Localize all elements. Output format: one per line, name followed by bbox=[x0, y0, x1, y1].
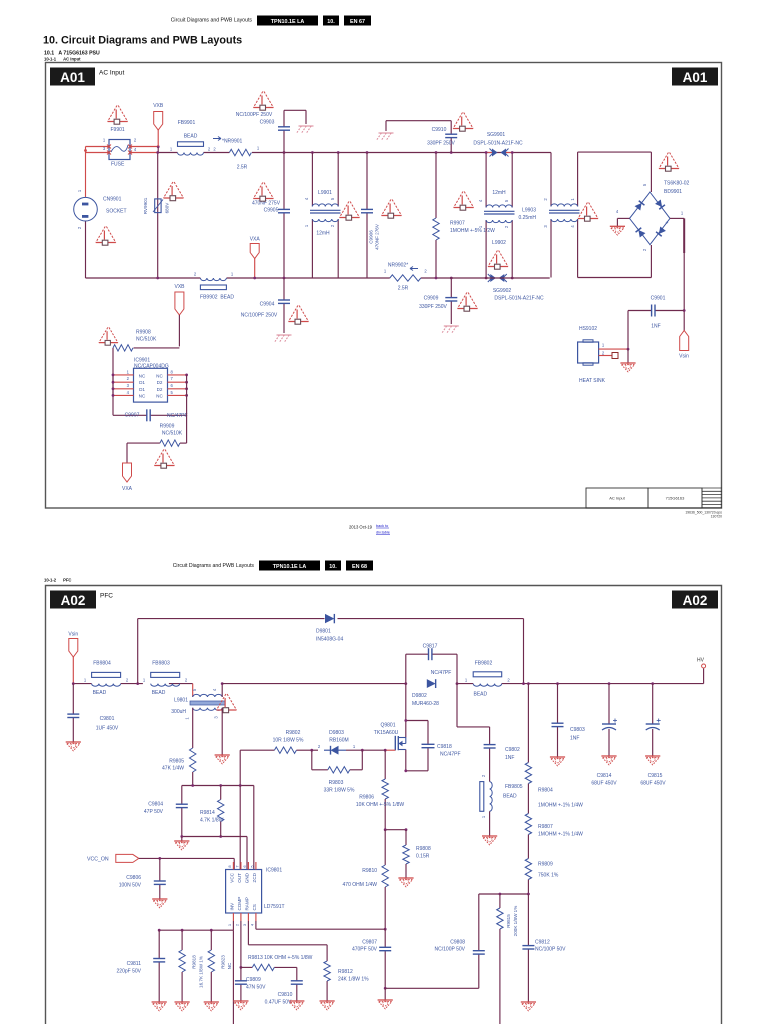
svg-text:BEAD: BEAD bbox=[184, 134, 198, 140]
ground (L9801) bbox=[215, 754, 230, 756]
svg-text:C9812: C9812 bbox=[535, 940, 550, 946]
svg-text:12mH: 12mH bbox=[316, 231, 330, 237]
capacitor C9803 1NF bbox=[552, 684, 585, 757]
svg-text:C9806: C9806 bbox=[126, 875, 141, 881]
svg-text:24K 1/8W 1%: 24K 1/8W 1% bbox=[338, 977, 369, 983]
svg-text:NC/510K: NC/510K bbox=[162, 431, 183, 437]
svg-text:D9801: D9801 bbox=[316, 629, 331, 635]
svg-text:C9909: C9909 bbox=[424, 296, 439, 302]
ground (C9910) bbox=[377, 133, 394, 140]
capacitor C9808 NC/100P 50V bbox=[435, 940, 485, 955]
svg-text:L9902: L9902 bbox=[492, 240, 506, 246]
svg-text:NC: NC bbox=[156, 373, 163, 378]
svg-text:R9812: R9812 bbox=[338, 969, 353, 975]
svg-text:1NF: 1NF bbox=[505, 755, 514, 761]
svg-text:470NF 275V: 470NF 275V bbox=[252, 201, 281, 207]
footer link bbox=[376, 524, 390, 535]
resistor R9802 10R 1/8W 5% bbox=[273, 730, 304, 753]
resistor R9815 200K 1/8W 1% bbox=[497, 894, 518, 1024]
wire: CS sense net bbox=[385, 893, 528, 989]
capacitor C9903 NC/100PF 250V bbox=[236, 110, 290, 152]
svg-text:NC/100P 50V: NC/100P 50V bbox=[435, 947, 466, 953]
ferrite bead FB9804 bbox=[84, 661, 129, 697]
svg-text:C9802: C9802 bbox=[505, 747, 520, 753]
wire: bottom bus bbox=[86, 277, 550, 280]
svg-text:300uH: 300uH bbox=[171, 709, 186, 715]
spark gap SG9902 bbox=[485, 274, 544, 302]
node HV bbox=[697, 658, 706, 684]
svg-text:470NF 276V: 470NF 276V bbox=[375, 223, 380, 250]
svg-text:BEAD: BEAD bbox=[93, 690, 107, 696]
capacitor C9811 220pF 50V bbox=[117, 930, 166, 1002]
svg-text:Vsin: Vsin bbox=[68, 632, 78, 638]
svg-text:R9908: R9908 bbox=[136, 330, 151, 336]
IC IC9801 LD7591T bbox=[226, 862, 285, 926]
ferrite bead FB9902 bbox=[194, 272, 235, 301]
svg-text:DSPL-501N-A21F-NC: DSPL-501N-A21F-NC bbox=[494, 296, 544, 302]
resistor R9909 NC/510K bbox=[127, 424, 187, 464]
svg-text:R9804: R9804 bbox=[538, 788, 553, 794]
svg-text:A01: A01 bbox=[683, 70, 708, 85]
svg-text:R9909: R9909 bbox=[160, 424, 175, 430]
svg-text:A01: A01 bbox=[60, 70, 85, 85]
ground (C9803) bbox=[550, 756, 565, 758]
svg-text:R9823: R9823 bbox=[221, 955, 226, 969]
svg-text:COMP: COMP bbox=[237, 897, 242, 911]
wire: Vsin output net bbox=[670, 211, 686, 331]
svg-text:47P 50V: 47P 50V bbox=[144, 809, 164, 815]
ground (FB9805) bbox=[482, 835, 497, 837]
svg-text:R9809: R9809 bbox=[538, 862, 553, 868]
svg-text:IN5408G-04: IN5408G-04 bbox=[316, 637, 343, 643]
diode D9802 MUR460-28 bbox=[412, 679, 439, 707]
schematic frame A01 bbox=[46, 63, 722, 509]
svg-text:BD9901: BD9901 bbox=[664, 189, 682, 195]
svg-text:NC/100PF 250V: NC/100PF 250V bbox=[236, 112, 273, 118]
capacitor C9904 NC/100PF 250V bbox=[241, 278, 290, 333]
diode D9803 RB160M bbox=[318, 730, 356, 755]
svg-text:FB9804: FB9804 bbox=[93, 661, 111, 667]
transformer L9901 12mH bbox=[304, 153, 341, 279]
svg-text:TPN10.1E LA: TPN10.1E LA bbox=[271, 19, 305, 25]
heat sink HS9102 bbox=[578, 326, 630, 384]
svg-text:div.table: div.table bbox=[376, 531, 390, 535]
capacitor C9818 NC/47PF bbox=[404, 719, 460, 772]
capacitor C9910 330PF 250V bbox=[386, 121, 457, 153]
svg-text:R9803: R9803 bbox=[329, 780, 344, 786]
warning triangle R9908 bbox=[99, 327, 118, 345]
svg-text:HV: HV bbox=[697, 658, 705, 664]
svg-text:C9910: C9910 bbox=[432, 127, 447, 133]
svg-text:R9805: R9805 bbox=[169, 759, 184, 765]
svg-text:C9903: C9903 bbox=[260, 120, 275, 126]
diode bridge BD9901 TS6K80-02 bbox=[630, 181, 690, 252]
svg-text:C9811: C9811 bbox=[127, 961, 142, 967]
svg-text:100N 50V: 100N 50V bbox=[119, 883, 142, 889]
svg-text:C9904: C9904 bbox=[260, 302, 275, 308]
svg-text:2.5R: 2.5R bbox=[398, 286, 409, 292]
svg-text:1NF: 1NF bbox=[651, 324, 660, 330]
capacitor C9906 470NF 276V bbox=[361, 153, 380, 279]
capacitor C9817 NC/47PF bbox=[406, 644, 457, 684]
svg-text:C9906: C9906 bbox=[369, 230, 374, 244]
svg-text:R9802: R9802 bbox=[286, 730, 301, 736]
ground (C9806) bbox=[152, 898, 167, 900]
transformer L9801 300uH bbox=[171, 682, 225, 719]
wire: bridge negative to ground bbox=[616, 209, 630, 226]
svg-text:C9907: C9907 bbox=[125, 413, 140, 419]
wire: PFC control bus bbox=[180, 784, 253, 869]
svg-text:VCC: VCC bbox=[229, 872, 234, 882]
svg-text:NC: NC bbox=[139, 394, 146, 399]
varistor RV9901 680V bbox=[143, 151, 170, 278]
svg-text:C9803: C9803 bbox=[570, 727, 585, 733]
svg-text:Circuit Diagrams and PWB Layou: Circuit Diagrams and PWB Layouts bbox=[171, 18, 253, 24]
svg-text:RV9901: RV9901 bbox=[143, 197, 148, 214]
svg-text:750K 1%: 750K 1% bbox=[538, 873, 559, 879]
svg-text:200K 1/8W 1%: 200K 1/8W 1% bbox=[513, 906, 518, 937]
svg-text:220pF 50V: 220pF 50V bbox=[117, 969, 142, 975]
svg-text:4.7K 1/8W: 4.7K 1/8W bbox=[200, 818, 224, 824]
ferrite bead FB9901 bbox=[170, 120, 211, 155]
resistor R9823 NC bbox=[208, 930, 232, 1002]
capacitor C9905 470NF 275V bbox=[252, 153, 290, 279]
svg-text:ZCD: ZCD bbox=[252, 872, 257, 882]
svg-text:0.25mH: 0.25mH bbox=[518, 215, 536, 221]
schematic frame A02 bbox=[46, 586, 722, 1025]
svg-text:470PF 50V: 470PF 50V bbox=[352, 947, 378, 953]
svg-text:AC Input: AC Input bbox=[609, 496, 625, 501]
svg-text:INV: INV bbox=[229, 902, 234, 911]
svg-text:C9817: C9817 bbox=[423, 644, 438, 650]
svg-text:L9903: L9903 bbox=[522, 208, 536, 214]
svg-text:NC/47PF: NC/47PF bbox=[167, 413, 188, 419]
header page 1 bbox=[171, 16, 371, 26]
resistor R9907 1MOHM bbox=[433, 153, 495, 279]
svg-text:0.15R: 0.15R bbox=[416, 854, 430, 860]
capacitor C9810 0.47UF 50V bbox=[265, 981, 303, 1006]
resistor NR9901 2.5R bbox=[213, 137, 260, 171]
warning triangle C9909 bbox=[458, 293, 478, 312]
wire: AC line L (fuse to bead to NR9901 to main net) bbox=[86, 145, 552, 154]
wire: HV divider chain bbox=[527, 684, 530, 1002]
svg-text:BEAD: BEAD bbox=[474, 692, 488, 698]
svg-text:470 OHM 1/4W: 470 OHM 1/4W bbox=[343, 882, 378, 888]
ferrite bead FB9805 bbox=[480, 782, 523, 836]
svg-text:FB9805: FB9805 bbox=[505, 784, 523, 790]
svg-text:R9818: R9818 bbox=[192, 955, 197, 969]
svg-text:R9814: R9814 bbox=[200, 810, 215, 816]
svg-text:VXB: VXB bbox=[153, 103, 164, 109]
svg-text:NC: NC bbox=[156, 394, 163, 399]
ground (C9811) bbox=[152, 1001, 167, 1003]
svg-text:10. Circuit Diagrams and PWB L: 10. Circuit Diagrams and PWB Layouts bbox=[43, 35, 242, 47]
svg-text:Q9801: Q9801 bbox=[380, 723, 395, 729]
svg-text:OUT: OUT bbox=[237, 873, 242, 883]
svg-text:EN 67: EN 67 bbox=[350, 19, 365, 25]
svg-text:back to: back to bbox=[376, 524, 388, 528]
resistor R9805 47K 1/4W bbox=[162, 708, 196, 786]
svg-text:BEAD: BEAD bbox=[152, 690, 166, 696]
svg-text:NC: NC bbox=[139, 373, 146, 378]
capacitor C9901 1NF bbox=[628, 296, 684, 350]
svg-text:RAMP: RAMP bbox=[244, 897, 249, 910]
ground (C9804 node) bbox=[174, 840, 189, 842]
IC IC9901 NC/CAP004DG bbox=[112, 358, 188, 403]
connector VXB (lower) bbox=[174, 284, 185, 346]
svg-text:F9901: F9901 bbox=[111, 127, 125, 133]
svg-text:AC Input: AC Input bbox=[99, 70, 124, 77]
spark gap SG9901 bbox=[473, 132, 523, 157]
resistor R9807 1MOHM bbox=[525, 814, 583, 838]
svg-text:FB9902 BEAD: FB9902 BEAD bbox=[200, 295, 234, 301]
svg-text:D1: D1 bbox=[139, 387, 145, 392]
svg-text:TK15A60U: TK15A60U bbox=[374, 730, 399, 736]
ground (C9801) bbox=[66, 741, 81, 743]
wire: gate drive net bbox=[240, 749, 386, 786]
resistor R9804 1MOHM bbox=[525, 763, 583, 809]
svg-text:33R 1/8W 5%: 33R 1/8W 5% bbox=[324, 788, 355, 794]
svg-text:10.: 10. bbox=[327, 19, 335, 25]
svg-text:C9905: C9905 bbox=[264, 208, 279, 214]
warning triangle C9905 bbox=[253, 183, 273, 202]
ground (C9810) bbox=[289, 1000, 304, 1002]
header page 2 bbox=[173, 561, 373, 571]
svg-text:R9807: R9807 bbox=[538, 824, 553, 830]
resistor R9908 NC/510K bbox=[113, 330, 179, 416]
ground (C9812) bbox=[521, 1001, 536, 1003]
svg-text:MUR460-28: MUR460-28 bbox=[412, 701, 439, 707]
svg-text:C9901: C9901 bbox=[651, 296, 666, 302]
fuse F9901 bbox=[103, 138, 137, 168]
svg-text:FB9802: FB9802 bbox=[475, 661, 493, 667]
capacitor C9802 1NF / bead FB9805 chain bbox=[457, 684, 520, 782]
svg-text:680V: 680V bbox=[165, 202, 170, 214]
svg-text:FB9901: FB9901 bbox=[178, 120, 196, 126]
svg-text:2.5R: 2.5R bbox=[237, 165, 248, 171]
svg-text:GND: GND bbox=[244, 872, 249, 883]
ground (C9815) bbox=[645, 755, 660, 757]
svg-text:Circuit Diagrams and PWB Layou: Circuit Diagrams and PWB Layouts bbox=[173, 563, 255, 569]
svg-text:10.: 10. bbox=[329, 564, 337, 570]
svg-text:EN 68: EN 68 bbox=[352, 564, 367, 570]
svg-text:LD7591T: LD7591T bbox=[264, 904, 285, 910]
svg-text:VXA: VXA bbox=[122, 486, 133, 492]
resistor R9812 24K 1/8W 1% bbox=[324, 961, 369, 983]
svg-text:D9803: D9803 bbox=[329, 730, 344, 736]
svg-text:D2: D2 bbox=[157, 380, 163, 385]
ground (bridge) bbox=[610, 225, 625, 227]
warning triangle near R9907 bbox=[454, 192, 474, 211]
capacitor C9812 NC/100P 50V bbox=[522, 940, 566, 953]
resistor R9814 4.7K 1/8W bbox=[200, 786, 224, 837]
capacitor C9809 47N 50V bbox=[235, 977, 266, 991]
svg-text:Vsin: Vsin bbox=[679, 354, 689, 360]
ground (C9809) bbox=[233, 1000, 248, 1002]
ground (R9812) bbox=[320, 1000, 335, 1002]
connector VXB (top) bbox=[153, 103, 164, 147]
svg-text:NR9902*: NR9902* bbox=[388, 263, 408, 269]
MOSFET Q9801 TK15A60U bbox=[374, 684, 406, 771]
ground (C9909) bbox=[442, 326, 459, 333]
warning triangle below L9902 bbox=[488, 251, 508, 270]
ground (C9903) bbox=[297, 126, 314, 133]
svg-text:1NF: 1NF bbox=[570, 736, 579, 742]
resistor R9818 16.7K 1/8W 1% bbox=[179, 930, 204, 1002]
warning triangle RV9901 bbox=[164, 182, 184, 201]
svg-text:715G6163: 715G6163 bbox=[666, 496, 685, 501]
svg-text:C9809: C9809 bbox=[246, 977, 261, 983]
svg-text:HS9102: HS9102 bbox=[579, 326, 597, 332]
node VCC_ON bbox=[87, 854, 234, 869]
svg-text:10-1-1 AC Input: 10-1-1 AC Input bbox=[44, 57, 81, 62]
capacitor C9807 470PF 50V bbox=[352, 928, 391, 1000]
svg-text:SOCKET: SOCKET bbox=[106, 209, 127, 215]
ground (R9818) bbox=[175, 1001, 190, 1003]
resistor R9810 470 OHM 1/4W bbox=[343, 830, 389, 930]
svg-text:VXB: VXB bbox=[174, 284, 185, 290]
svg-text:2013 Oct-19: 2013 Oct-19 bbox=[349, 525, 373, 530]
svg-text:VCC_ON: VCC_ON bbox=[87, 857, 109, 863]
ferrite bead FB9803 bbox=[143, 661, 188, 697]
svg-text:IC9801: IC9801 bbox=[266, 868, 282, 874]
svg-text:C9810: C9810 bbox=[278, 992, 293, 998]
resistor R9809 750K 1% bbox=[525, 859, 559, 880]
svg-text:C9814: C9814 bbox=[597, 773, 612, 779]
svg-text:C9808: C9808 bbox=[450, 940, 465, 946]
svg-text:10-1-2 PFC: 10-1-2 PFC bbox=[44, 578, 71, 583]
svg-text:NC: NC bbox=[227, 962, 232, 969]
capacitor C9814 68UF 450V bbox=[591, 684, 617, 787]
svg-text:R9806: R9806 bbox=[359, 795, 374, 801]
ground (C9814) bbox=[601, 755, 616, 757]
svg-text:47N 50V: 47N 50V bbox=[246, 985, 266, 991]
svg-text:R9907: R9907 bbox=[450, 221, 465, 227]
svg-text:DSPL-501N-A21F-NC: DSPL-501N-A21F-NC bbox=[473, 141, 523, 147]
svg-text:C9801: C9801 bbox=[100, 716, 115, 722]
svg-text:130720: 130720 bbox=[711, 515, 722, 519]
svg-text:R9810: R9810 bbox=[362, 868, 377, 874]
svg-text:TS6K80-02: TS6K80-02 bbox=[664, 181, 690, 187]
capacitor C9806 100N 50V bbox=[119, 858, 166, 899]
svg-text:R9813 10K OHM +-5% 1/8W: R9813 10K OHM +-5% 1/8W bbox=[248, 955, 313, 961]
connector Vsin bbox=[679, 331, 689, 360]
svg-text:0.47UF 50V: 0.47UF 50V bbox=[265, 1000, 292, 1006]
warning triangle below socket bbox=[96, 227, 116, 246]
ground (R9823) bbox=[204, 1001, 219, 1003]
resistor R9813 10K OHM bbox=[248, 955, 313, 971]
svg-text:1MOHM +-1% 1/4W: 1MOHM +-1% 1/4W bbox=[538, 803, 583, 809]
svg-text:TPN10.1E LA: TPN10.1E LA bbox=[273, 564, 307, 570]
svg-text:10K OHM +-5% 1/8W: 10K OHM +-5% 1/8W bbox=[356, 802, 404, 808]
svg-text:A02: A02 bbox=[683, 593, 708, 608]
svg-text:RB160M: RB160M bbox=[329, 738, 348, 744]
svg-text:L9901: L9901 bbox=[318, 190, 332, 196]
resistor R9803 33R 1/8W 5% (parallel) bbox=[312, 750, 363, 793]
wire: neutral / socket branch bbox=[84, 147, 87, 279]
resistor NR9902 2.5R bbox=[384, 263, 428, 292]
svg-text:NC/100PF 250V: NC/100PF 250V bbox=[241, 313, 278, 319]
svg-text:SG9902: SG9902 bbox=[493, 288, 512, 294]
warning triangle C9904 bbox=[289, 306, 309, 325]
capacitor C9909 330PF 250V bbox=[419, 277, 457, 324]
svg-text:FB9803: FB9803 bbox=[152, 661, 170, 667]
svg-text:CS: CS bbox=[252, 904, 257, 910]
svg-text:R9808: R9808 bbox=[416, 846, 431, 852]
svg-text:1MOHM +-5% 1/2W: 1MOHM +-5% 1/2W bbox=[450, 228, 495, 234]
ground (R9808) bbox=[398, 877, 413, 879]
svg-text:NC/47PF: NC/47PF bbox=[431, 670, 452, 676]
warning triangle R9909 bbox=[154, 450, 174, 469]
svg-text:NC/100P 50V: NC/100P 50V bbox=[535, 947, 566, 953]
warning triangle right of L9903 bbox=[578, 203, 598, 222]
svg-text:D9802: D9802 bbox=[412, 693, 427, 699]
transformer L9902 12mH bbox=[478, 151, 515, 279]
resistor R9808 0.15R bbox=[403, 830, 431, 878]
svg-text:68UF 450V: 68UF 450V bbox=[640, 781, 666, 787]
svg-text:+: + bbox=[666, 221, 669, 227]
wire: Vsin node to beads bbox=[72, 682, 193, 685]
svg-text:NC/510K: NC/510K bbox=[136, 337, 157, 343]
svg-text:FUSE: FUSE bbox=[111, 162, 125, 168]
wire: source node bbox=[384, 828, 408, 831]
wire to ground (C9903) bbox=[284, 110, 306, 124]
svg-text:R9815: R9815 bbox=[506, 914, 511, 928]
diode D9801 IN5408G-04 bbox=[316, 614, 343, 643]
svg-text:NC/47PF: NC/47PF bbox=[440, 752, 461, 758]
svg-text:*NR9901: *NR9901 bbox=[222, 139, 243, 145]
svg-text:16.7K 1/8W 1%: 16.7K 1/8W 1% bbox=[199, 956, 204, 988]
svg-text:BEAD: BEAD bbox=[503, 794, 517, 800]
capacitor C9907 NC/47PF bbox=[113, 375, 188, 443]
capacitor C9801 1UF 450V bbox=[67, 684, 119, 742]
connector Vsin (A02) bbox=[68, 632, 78, 684]
warning triangle near C9906 bbox=[382, 200, 402, 219]
svg-text:1UF 450V: 1UF 450V bbox=[96, 726, 119, 732]
svg-text:PFC: PFC bbox=[100, 593, 113, 600]
svg-text:C9818: C9818 bbox=[437, 744, 452, 750]
wire: boost diode branch (D9801 top wire) bbox=[138, 619, 524, 684]
warning triangle F9901 bbox=[108, 106, 128, 134]
ground (C9904) bbox=[275, 335, 292, 342]
warning triangle C9903 bbox=[253, 92, 273, 111]
connector VXA (lower) bbox=[122, 463, 133, 492]
warning triangle L9801 bbox=[217, 694, 237, 713]
wire: main net to MOSFET drain bbox=[222, 682, 703, 685]
svg-text:A02: A02 bbox=[61, 593, 86, 608]
svg-text:C9807: C9807 bbox=[362, 940, 377, 946]
connector CN9901 socket bbox=[74, 189, 127, 229]
resistor R9806 10K OHM bbox=[356, 750, 404, 830]
svg-text:1MOHM +-1% 1/4W: 1MOHM +-1% 1/4W bbox=[538, 832, 583, 838]
ground (C9807) bbox=[378, 999, 393, 1001]
ferrite bead FB9802 bbox=[465, 661, 511, 698]
transformer L9903 0.25mH bbox=[518, 198, 579, 228]
warning triangle BD9901 bbox=[659, 153, 679, 172]
svg-text:68UF 450V: 68UF 450V bbox=[591, 781, 617, 787]
title block bbox=[586, 488, 722, 519]
wire: IC bottom nets bbox=[158, 921, 385, 1024]
capacitor C9804 47P 50V bbox=[144, 802, 188, 816]
svg-text:10R 1/8W 5%: 10R 1/8W 5% bbox=[273, 738, 304, 744]
ground (heat sink) bbox=[620, 362, 635, 364]
svg-text:330PF 250V: 330PF 250V bbox=[427, 141, 455, 147]
svg-text:D2: D2 bbox=[157, 387, 163, 392]
wire: L9903 coupling loop bbox=[551, 152, 651, 277]
svg-text:C9804: C9804 bbox=[148, 802, 163, 808]
svg-text:47K 1/4W: 47K 1/4W bbox=[162, 766, 184, 772]
svg-text:VXA: VXA bbox=[250, 237, 261, 243]
